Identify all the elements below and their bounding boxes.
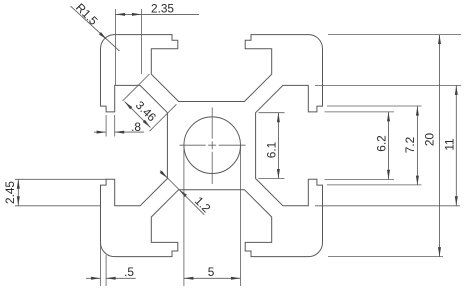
svg-text:2.35: 2.35 — [151, 1, 174, 15]
dim 6.2 — [325, 111, 395, 113]
dim 1.2 web — [160, 171, 204, 215]
svg-text:20: 20 — [423, 133, 437, 147]
svg-text:2.45: 2.45 — [3, 181, 17, 204]
dim 5 bore — [183, 146, 185, 286]
svg-text:6.1: 6.1 — [264, 142, 278, 158]
dim .8 — [105, 115, 107, 137]
dim R1.5 leader — [71, 6, 120, 51]
svg-text:R1.5: R1.5 — [73, 0, 101, 28]
svg-text:.8: .8 — [131, 120, 141, 134]
centerline horizontal — [180, 144, 246, 146]
center bore circle dia 5 — [184, 117, 241, 174]
svg-text:11: 11 — [442, 138, 456, 150]
centerline vertical — [211, 108, 213, 185]
svg-text:6.2: 6.2 — [374, 135, 388, 151]
dim 3.46 chamfer — [123, 74, 150, 101]
dim 6.1 right slot cavity — [258, 112, 284, 114]
dim 20 overall — [328, 34, 461, 36]
svg-text:5: 5 — [208, 265, 215, 279]
svg-text:1.2: 1.2 — [192, 194, 214, 216]
dim 2.45 left — [15, 178, 106, 180]
dim .5 bottom — [100, 240, 102, 286]
svg-text:7.2: 7.2 — [403, 137, 417, 153]
profile outline of 20x20 T-slot aluminum extrusion cross-section — [101, 35, 323, 257]
dim 2.35 top — [115, 9, 117, 85]
dim 7.2 — [327, 105, 422, 107]
dim 11 cavity width — [315, 84, 461, 86]
svg-text:.5: .5 — [124, 265, 134, 279]
